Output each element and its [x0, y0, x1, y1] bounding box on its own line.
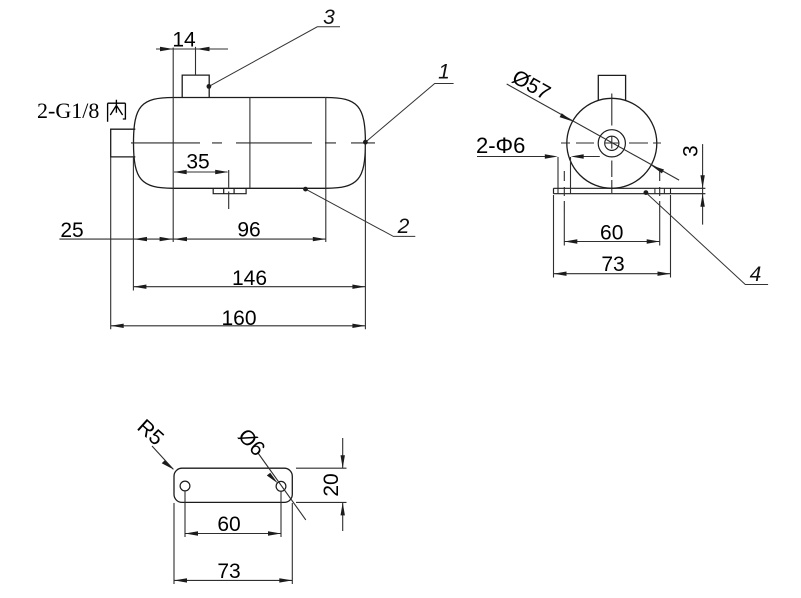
- extension lines 73 end view: [554, 195, 671, 278]
- extension lines 60 end view: [564, 213, 659, 246]
- dimension 60 bottom view: [185, 533, 281, 535]
- svg-text:Ø6: Ø6: [233, 424, 269, 460]
- svg-text:2-Φ6: 2-Φ6: [476, 133, 525, 158]
- leader 1 dot: [363, 140, 368, 145]
- leader 2 dot: [303, 187, 308, 192]
- svg-text:2-G1/8: 2-G1/8: [37, 98, 99, 123]
- leader R5: [152, 446, 173, 469]
- svg-text:146: 146: [232, 267, 267, 290]
- leader O6: [258, 453, 306, 520]
- extension lines 60 bottom view: [185, 491, 281, 537]
- dimension 14: [156, 47, 228, 75]
- extension line tank left end: [132, 157, 134, 291]
- tank left elliptical head: [134, 98, 174, 189]
- tank horizontal centerline (dashed): [131, 142, 375, 144]
- port outer circle: [598, 130, 625, 157]
- top boss end view: [598, 75, 625, 100]
- dimension 146: [133, 286, 365, 288]
- port inner circle: [605, 136, 619, 150]
- bracket hole right: [276, 481, 286, 491]
- svg-text:3: 3: [680, 145, 703, 157]
- right hole edge lines: [655, 188, 665, 193]
- leader 3 dot: [207, 84, 212, 89]
- svg-text:73: 73: [601, 253, 624, 276]
- bracket plate outline: [174, 468, 292, 502]
- hole centerlines dashed: [564, 171, 659, 213]
- left tangent line (also extension line for dims): [172, 48, 174, 243]
- tank end circle: [567, 98, 657, 188]
- svg-text:96: 96: [237, 219, 260, 242]
- horizontal centerline end view: [561, 142, 661, 144]
- dimension 73 bottom view: [174, 579, 292, 581]
- tank shell top and bottom lines: [173, 98, 326, 189]
- diameter leader O57: [507, 84, 679, 180]
- svg-text:14: 14: [172, 29, 196, 52]
- extension line port left edge: [110, 157, 112, 329]
- dimension 3 (plate thickness): [702, 144, 704, 225]
- extension lines 20 bottom view: [296, 468, 347, 502]
- dimension 73 end view: [554, 273, 671, 275]
- svg-text:20: 20: [320, 473, 343, 496]
- svg-text:4: 4: [750, 263, 762, 286]
- svg-text:160: 160: [221, 307, 256, 330]
- arrows 96: [174, 237, 326, 241]
- left hole edge lines: [558, 157, 571, 194]
- svg-text:Ø57: Ø57: [508, 66, 554, 105]
- dimension 35: [174, 171, 228, 173]
- svg-text:R5: R5: [133, 415, 168, 450]
- leader 4 dot: [644, 190, 649, 195]
- bracket hole left: [180, 481, 190, 491]
- svg-text:25: 25: [60, 219, 83, 242]
- top boss (port fitting, item 3): [182, 75, 209, 97]
- dimension 160: [111, 325, 366, 327]
- leader 3: [209, 27, 340, 87]
- left port (2-G1/8): [111, 129, 136, 157]
- hand-drawn CJK glyph nei: [108, 100, 126, 122]
- leader 2: [306, 189, 416, 236]
- svg-text:2: 2: [397, 215, 410, 238]
- svg-text:35: 35: [186, 151, 209, 174]
- svg-text:1: 1: [438, 61, 450, 84]
- dimension 20 bottom view: [342, 438, 344, 531]
- extension lines 73 bottom view: [174, 503, 292, 584]
- bottom boss vertical centerline (dashed): [228, 170, 230, 209]
- arrows 25: [134, 237, 173, 241]
- dimension 60 end view: [564, 241, 659, 243]
- dimension line 25 / 96: [59, 238, 325, 240]
- tank right elliptical head: [326, 98, 366, 189]
- leader 1: [365, 84, 453, 143]
- leader 2-phi6: [477, 156, 600, 158]
- weld seam line: [249, 98, 251, 189]
- svg-text:3: 3: [323, 6, 335, 29]
- svg-text:73: 73: [217, 560, 240, 583]
- vertical centerline end view: [611, 94, 613, 194]
- extension line tank right end: [364, 143, 366, 329]
- base plate edge view: [554, 188, 706, 193]
- plate right end line: [670, 188, 672, 193]
- right tangent line (also extension line for dim 96): [325, 98, 327, 243]
- svg-text:60: 60: [217, 513, 240, 536]
- leader 4: [646, 193, 768, 285]
- svg-text:60: 60: [600, 222, 623, 245]
- bottom boss fitting: [213, 188, 246, 193]
